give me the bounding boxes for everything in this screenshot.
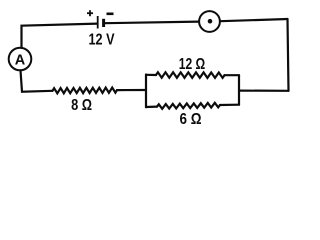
wire: right side vertical <box>288 19 289 91</box>
battery B1 <box>98 16 104 29</box>
resistor R2 12ohm <box>156 72 225 78</box>
svg-text:A: A <box>15 52 26 68</box>
lamp L1 (circle with dot) <box>199 11 220 32</box>
wire: resistor R2 to right bar <box>225 74 240 76</box>
wire: battery - plate to lamp <box>105 22 199 24</box>
resistor R1 8ohm <box>53 88 118 94</box>
svg-text:8 Ω: 8 Ω <box>71 97 92 114</box>
wire: lamp to top-right corner <box>220 19 287 21</box>
wire: ammeter bottom to bottom-left corner then to resistor R1 <box>21 70 53 91</box>
svg-text:12 V: 12 V <box>89 32 115 49</box>
svg-text:12 Ω: 12 Ω <box>179 56 206 73</box>
wire: left bar to resistor R2 <box>146 74 156 76</box>
battery polarity label + <box>87 10 93 16</box>
node: parallel block left junction bar <box>145 75 147 108</box>
wire: resistor R3 to right bar <box>220 104 239 107</box>
wire: left bar to resistor R3 <box>146 105 157 108</box>
wire: ammeter top to top-left corner to battery + plate <box>22 24 98 48</box>
wire: parallel block right bar to right side <box>239 89 289 91</box>
wire: resistor R1 to parallel block left junction <box>117 89 146 91</box>
ammeter A <box>9 48 32 71</box>
svg-text:6 Ω: 6 Ω <box>180 111 202 128</box>
node: parallel block right junction bar <box>238 75 240 105</box>
battery polarity label - <box>107 13 114 16</box>
resistor R3 6ohm <box>157 103 220 109</box>
